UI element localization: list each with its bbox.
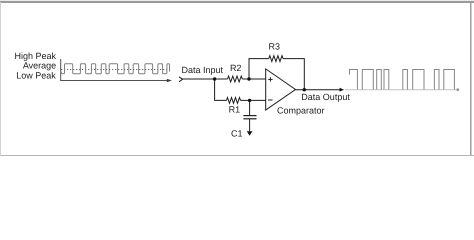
svg-text:Data Input: Data Input <box>182 65 224 75</box>
svg-text:R2: R2 <box>230 63 242 73</box>
svg-text:Comparator: Comparator <box>277 105 325 115</box>
svg-text:R3: R3 <box>269 42 281 52</box>
svg-text:C1: C1 <box>231 129 243 139</box>
svg-text:Low Peak: Low Peak <box>16 71 56 81</box>
svg-text:High Peak: High Peak <box>14 51 56 61</box>
svg-text:R1: R1 <box>229 104 241 114</box>
svg-text:Data Output: Data Output <box>301 92 350 102</box>
svg-text:Average: Average <box>23 61 56 71</box>
